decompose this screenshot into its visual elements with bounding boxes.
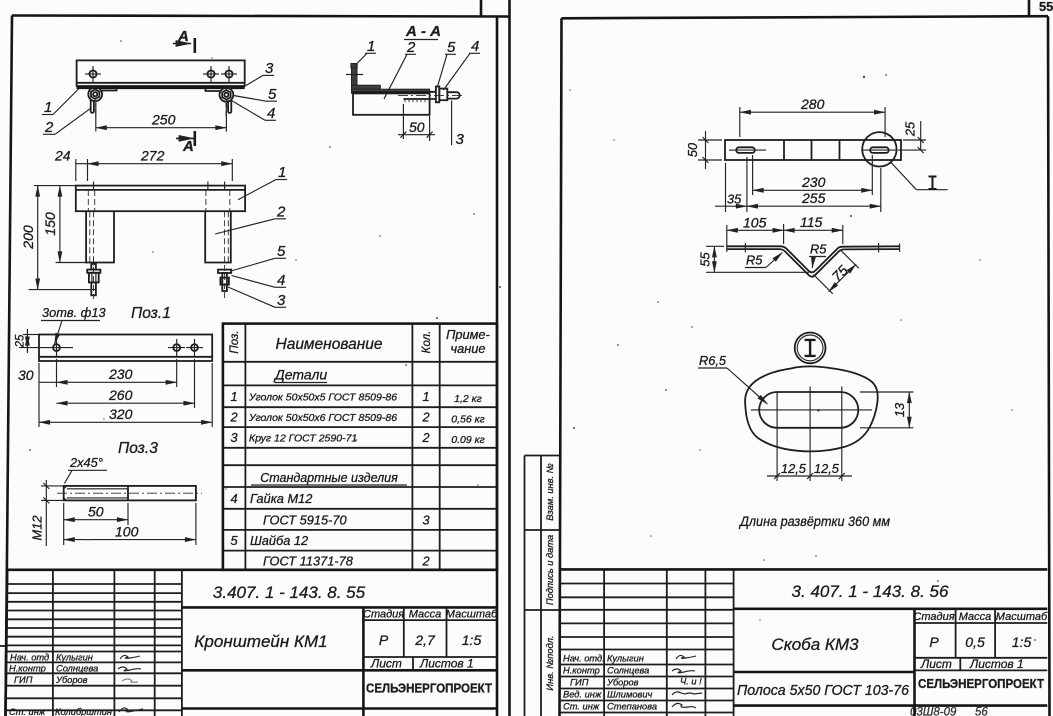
svg-text:255: 255	[801, 190, 826, 206]
svg-text:Гайка М12: Гайка М12	[250, 491, 312, 506]
dimension 105	[727, 215, 784, 245]
svg-text:150: 150	[42, 212, 58, 236]
svg-text:1:5: 1:5	[462, 632, 482, 648]
svg-text:105: 105	[743, 215, 767, 231]
poz3 chamfer note 2x45	[65, 455, 108, 483]
section A-A threaded rod	[352, 89, 436, 103]
svg-text:Колибрштин: Колибрштин	[55, 707, 112, 716]
svg-text:2: 2	[229, 410, 237, 425]
leader to detail label I	[891, 163, 948, 190]
svg-text:4: 4	[277, 272, 285, 289]
svg-text:3. 407. 1 - 143. 8. 56: 3. 407. 1 - 143. 8. 56	[792, 582, 949, 601]
section A-A nut 4	[439, 89, 447, 101]
svg-text:Поз.: Поз.	[229, 330, 241, 353]
left sheet top stamp box edge	[480, 0, 483, 16]
left selenergoproekt box	[182, 682, 497, 709]
svg-text:4: 4	[471, 38, 479, 55]
svg-text:Поз.1: Поз.1	[131, 305, 171, 322]
plan view hole right	[221, 66, 237, 82]
section A-A angle 2 web rectangle	[353, 93, 430, 114]
front view callout 4	[232, 272, 287, 289]
right sheet frame left edge	[560, 18, 562, 716]
left title block outer lines	[6, 570, 498, 716]
svg-text:2,7: 2,7	[414, 632, 436, 648]
svg-text:Скоба КМ3: Скоба КМ3	[771, 635, 859, 654]
svg-text:0.09 кг: 0.09 кг	[451, 434, 485, 446]
svg-text:Стадия: Стадия	[363, 609, 404, 621]
right list listov row	[915, 657, 1048, 671]
bent profile strip bottom line	[727, 249, 900, 277]
svg-text:ГОСТ 5915-70: ГОСТ 5915-70	[263, 513, 348, 528]
left signature row st inzh	[9, 707, 143, 716]
right title block left grid rows	[560, 584, 734, 713]
svg-text:200: 200	[20, 225, 36, 250]
profile end ticks	[727, 243, 900, 253]
parts list table grid	[223, 324, 497, 570]
detail slot outline	[759, 392, 858, 428]
dimension 230	[753, 155, 873, 195]
dimension 230	[57, 359, 177, 387]
plan view right fastener washer and nut	[206, 88, 234, 117]
svg-text:3: 3	[422, 513, 429, 528]
dimension 150	[42, 186, 86, 263]
dimension 260	[57, 359, 195, 408]
right stadia massa masshtab header	[913, 609, 1048, 658]
svg-text:1,2 кг: 1,2 кг	[454, 393, 482, 405]
front view left bolt with nut and washer	[87, 258, 100, 299]
svg-text:1:5: 1:5	[1012, 634, 1032, 650]
left signature row n kontr	[9, 664, 141, 674]
svg-text:Нач. отд: Нач. отд	[10, 653, 49, 663]
right material cell polosa	[734, 682, 1048, 706]
callout 5 plan	[234, 86, 278, 103]
right sheet frame right edge	[1048, 16, 1050, 716]
left title name cell Kronshtein KM1	[182, 607, 497, 716]
section A-A title	[404, 23, 441, 40]
section A-A callout 3 leader	[452, 101, 465, 149]
callout 4 plan	[232, 101, 277, 123]
svg-text:50: 50	[685, 142, 700, 157]
poz1 strip hole 3	[186, 339, 203, 356]
front view callout 3	[228, 287, 286, 309]
section mark A bottom	[176, 131, 195, 155]
svg-text:Масса: Масса	[409, 609, 442, 621]
svg-text:R5: R5	[746, 253, 763, 268]
svg-text:320: 320	[109, 406, 133, 422]
left signature row gip	[14, 675, 138, 685]
dimension 50	[685, 131, 722, 169]
svg-text:230: 230	[801, 174, 826, 190]
dimension 320	[39, 363, 212, 427]
svg-text:3: 3	[230, 430, 237, 445]
svg-text:250: 250	[151, 112, 176, 128]
table row 5 shaiba	[230, 533, 308, 548]
poz1 strip hole 2	[168, 339, 185, 356]
svg-text:Шайба 12: Шайба 12	[250, 533, 308, 548]
svg-text:Шлимович: Шлимович	[607, 690, 653, 700]
svg-text:Нач. отд.: Нач. отд.	[563, 654, 605, 664]
right signature row n kontr	[563, 666, 695, 676]
right name cell Skoba KM3	[734, 609, 915, 716]
svg-text:Солнцева: Солнцева	[56, 664, 98, 674]
flat bar bend lines	[784, 140, 840, 160]
plan view hole left	[85, 66, 101, 82]
svg-text:Инв. №подл.: Инв. №подл.	[545, 635, 555, 690]
section A-A dimension 50	[398, 104, 435, 141]
table row gost 11371	[263, 554, 430, 569]
svg-text:3: 3	[265, 60, 274, 77]
section A-A callout 4	[444, 38, 481, 90]
right title block top line	[560, 568, 1048, 571]
svg-text:Поз.3: Поз.3	[118, 440, 158, 457]
front view left leg	[86, 211, 114, 266]
svg-text:Уголок 50х50х5 ГОСТ 8509-86: Уголок 50х50х5 ГОСТ 8509-86	[248, 392, 397, 404]
svg-text:230: 230	[108, 366, 133, 382]
table section Standartnye izdeliya	[251, 471, 407, 485]
svg-text:ГИП: ГИП	[570, 678, 589, 688]
dimension 55	[698, 246, 810, 272]
dimension 12,5 12,5	[767, 461, 852, 479]
svg-text:М12: М12	[30, 516, 45, 541]
svg-text:А: А	[177, 28, 189, 45]
callout 2 plan	[43, 108, 91, 136]
section A-A angle 1 horizontal leg (hatched)	[352, 85, 381, 90]
section A-A callout 2	[384, 39, 416, 99]
svg-text:2: 2	[276, 204, 286, 221]
poz3 dimension M12	[30, 480, 64, 546]
section A-A callout 5	[438, 39, 457, 87]
flat bar right slot	[862, 147, 896, 153]
right signature row ved inzh	[563, 690, 702, 700]
dimension 30	[18, 359, 57, 427]
svg-text:280: 280	[800, 96, 825, 112]
svg-text:25: 25	[903, 121, 918, 137]
dimension 272	[88, 148, 233, 182]
dimension 250	[96, 103, 227, 132]
svg-text:Полоса 5х50 ГОСТ 103-76: Полоса 5х50 ГОСТ 103-76	[737, 682, 910, 699]
callout 3 plan	[246, 60, 274, 86]
svg-text:55: 55	[1039, 0, 1053, 14]
svg-text:1: 1	[44, 99, 52, 116]
svg-text:3отв. ф13: 3отв. ф13	[42, 305, 106, 320]
dimension 280	[740, 96, 885, 137]
poz3 dimension 50	[64, 503, 128, 545]
detail I title circle	[795, 333, 826, 364]
front view callout 5	[231, 243, 286, 271]
table row 1 ugolok	[230, 389, 481, 405]
svg-text:1: 1	[422, 389, 429, 404]
svg-text:2: 2	[421, 410, 429, 425]
left sheet inner right border	[496, 17, 499, 716]
radius note R6.5	[698, 353, 767, 404]
svg-text:Ст. инж: Ст. инж	[9, 707, 46, 716]
table row 4 gaika	[230, 491, 312, 506]
left sheet frame top edge	[12, 16, 510, 17]
svg-text:А: А	[182, 138, 194, 155]
front view right leg	[205, 211, 231, 266]
svg-text:Стадия: Стадия	[913, 611, 954, 623]
svg-text:25: 25	[15, 334, 27, 348]
svg-text:Длина развёртки 360 мм: Длина развёртки 360 мм	[738, 513, 890, 529]
svg-text:Кронштейн КМ1: Кронштейн КМ1	[194, 632, 327, 651]
front view top angle bar	[76, 186, 245, 212]
section mark A top	[173, 28, 195, 53]
svg-text:Лист: Лист	[920, 657, 952, 671]
svg-text:1: 1	[367, 38, 375, 55]
svg-text:50: 50	[88, 504, 104, 520]
callout 1 plan	[42, 89, 78, 116]
flat bar left slot	[729, 147, 766, 153]
radius note R5 left	[745, 253, 782, 268]
left signature row nach otd	[10, 653, 140, 663]
svg-text:30: 30	[18, 367, 34, 383]
svg-text:Кулыгин: Кулыгин	[607, 654, 644, 664]
svg-text:ГИП: ГИП	[14, 675, 33, 685]
svg-text:Подпись и дата: Подпись и дата	[545, 535, 555, 605]
svg-text:50: 50	[409, 119, 425, 135]
svg-text:Н.контр: Н.контр	[9, 664, 46, 674]
svg-text:100: 100	[115, 523, 139, 539]
dimension 75 diagonal	[814, 250, 859, 293]
poz3 dimension 100	[64, 503, 196, 545]
svg-text:Солнцева: Солнцева	[607, 666, 649, 676]
svg-text:3: 3	[277, 292, 286, 309]
dimension 200	[20, 186, 96, 290]
svg-text:СЕЛЬЭНЕРГОПРОЕКТ: СЕЛЬЭНЕРГОПРОЕКТ	[366, 682, 492, 696]
svg-text:Масса: Масса	[959, 611, 992, 623]
svg-text:2: 2	[421, 554, 429, 569]
svg-text:5: 5	[447, 39, 456, 56]
section A-A rod end	[398, 92, 464, 98]
svg-text:Степанова: Степанова	[607, 702, 657, 712]
left title block column lines	[53, 570, 182, 716]
svg-text:56: 56	[975, 707, 988, 716]
fold mark tick	[0, 645, 6, 647]
section A-A callout 1	[355, 38, 377, 66]
detail slot centerlines	[751, 387, 872, 482]
poz1 strip outline	[39, 335, 212, 362]
dimension 24	[54, 148, 88, 182]
svg-text:5: 5	[230, 533, 238, 548]
svg-text:3.407. 1 - 143. 8. 55: 3.407. 1 - 143. 8. 55	[213, 583, 366, 602]
svg-text:Уголок 50х50х6 ГОСТ 8509-86: Уголок 50х50х6 ГОСТ 8509-86	[248, 412, 397, 424]
table row gost 5915	[263, 513, 430, 528]
table row 3 krug	[230, 430, 484, 446]
bent profile strip top line	[727, 246, 900, 272]
svg-text:0,56 кг: 0,56 кг	[451, 414, 485, 426]
dimension 115	[784, 214, 843, 244]
svg-text:55: 55	[698, 252, 713, 267]
front view right bolt with nut and washer	[218, 265, 231, 299]
svg-text:Листов 1: Листов 1	[969, 657, 1024, 671]
plan view left fastener washer and nut	[88, 87, 116, 117]
svg-text:12,5: 12,5	[814, 461, 840, 476]
svg-text:Стандартные изделия: Стандартные изделия	[260, 471, 398, 485]
svg-text:3: 3	[456, 131, 465, 148]
front view callout 1	[238, 164, 287, 200]
right designation cell	[734, 582, 1048, 609]
svg-text:1: 1	[278, 164, 286, 181]
svg-text:2: 2	[421, 430, 429, 445]
dimension 25 vertical	[15, 329, 40, 353]
left stadia values row	[379, 632, 482, 648]
right signature row nach otd	[563, 654, 696, 664]
svg-text:Р: Р	[929, 634, 939, 650]
svg-text:Наименование: Наименование	[276, 336, 383, 353]
section A-A angle 1 vertical leg (hatched)	[346, 64, 363, 90]
svg-text:272: 272	[140, 148, 165, 164]
table section Detali	[273, 367, 328, 383]
left stadia massa masshtab header	[363, 607, 498, 657]
svg-text:Н.контр: Н.контр	[563, 666, 600, 676]
svg-text:260: 260	[108, 387, 133, 403]
table row 2 ugolok	[229, 410, 484, 426]
svg-text:R6,5: R6,5	[699, 353, 727, 368]
svg-text:115: 115	[800, 214, 823, 230]
poz3 rod outline	[57, 486, 202, 501]
svg-text:35: 35	[727, 192, 742, 207]
dimension 13	[860, 392, 913, 428]
section A-A angle 2 flange strip (hatched)	[352, 89, 430, 93]
svg-text:12,5: 12,5	[781, 461, 807, 476]
svg-text:ГОСТ 11371-78: ГОСТ 11371-78	[263, 554, 354, 569]
svg-text:4: 4	[230, 491, 237, 506]
left list listov row	[370, 657, 474, 671]
svg-text:Детали: Детали	[273, 367, 328, 383]
right title block column lines	[604, 569, 734, 716]
scan speckle dots extra	[87, 57, 1013, 621]
svg-text:5: 5	[268, 86, 277, 103]
front view hidden hole lines in bar	[88, 190, 230, 211]
svg-text:5: 5	[277, 243, 286, 260]
svg-text:Ст. инж: Ст. инж	[563, 702, 600, 712]
svg-text:Уборов: Уборов	[55, 675, 88, 685]
right signature row gip	[570, 677, 702, 688]
svg-text:0,5: 0,5	[965, 634, 985, 650]
svg-text:чание: чание	[450, 341, 485, 356]
right sheet frame top edge	[562, 16, 1049, 18]
left title block designation cell	[182, 583, 497, 607]
front view callout 2	[215, 204, 286, 235]
margin strip borders	[525, 456, 560, 716]
plan view hole middle	[203, 66, 219, 82]
svg-text:2: 2	[406, 39, 416, 56]
svg-text:Круг 12 ГОСТ 2590-71: Круг 12 ГОСТ 2590-71	[249, 433, 357, 445]
svg-text:Взам. инв. №: Взам. инв. №	[545, 463, 555, 521]
svg-text:03Ш8-09: 03Ш8-09	[910, 707, 957, 716]
poz1 strip hole 1	[19, 339, 73, 356]
left title block small grid rows	[6, 584, 182, 710]
left sheet frame left edge	[6, 16, 13, 716]
detail mark circle on right slot	[862, 132, 896, 166]
right signature row st inzh	[563, 702, 696, 712]
svg-text:Листов 1: Листов 1	[419, 657, 474, 671]
svg-text:Уборов: Уборов	[606, 678, 639, 688]
svg-text:24: 24	[54, 148, 71, 164]
table header Primechanie	[446, 327, 490, 356]
svg-text:2: 2	[44, 119, 54, 136]
dimension 25	[898, 121, 926, 153]
radius note R5 right	[809, 242, 827, 269]
svg-text:Вед. инж: Вед. инж	[563, 690, 602, 700]
flat bar outline	[725, 140, 901, 160]
svg-text:А - А: А - А	[405, 23, 441, 40]
dimension 35 and 255	[715, 157, 881, 212]
svg-text:Р: Р	[379, 632, 389, 648]
svg-text:СЕЛЬЭНЕРГОПРОЕКТ: СЕЛЬЭНЕРГОПРОЕКТ	[918, 677, 1044, 691]
svg-text:Кулыгин: Кулыгин	[56, 653, 93, 663]
poz1 strip: 3 holes note	[41, 305, 106, 344]
svg-text:Кол.: Кол.	[421, 331, 433, 354]
svg-text:4: 4	[267, 105, 275, 122]
svg-text:2х45°: 2х45°	[69, 455, 103, 470]
svg-text:13: 13	[892, 403, 907, 417]
page number box	[1029, 0, 1053, 16]
svg-text:Масштаб: Масштаб	[446, 609, 498, 621]
svg-text:Ч. и !: Ч. и !	[680, 677, 702, 687]
svg-text:R5: R5	[810, 242, 827, 257]
right stadia values	[929, 634, 1031, 650]
svg-text:1: 1	[230, 389, 237, 404]
front view centermark ticks on bar top	[94, 182, 225, 190]
detail blob freeform outline	[745, 366, 878, 451]
svg-text:Приме-: Приме-	[446, 327, 490, 342]
svg-text:Лист: Лист	[370, 657, 402, 671]
section A-A washer 5	[436, 87, 439, 103]
svg-text:Масштаб: Масштаб	[996, 611, 1048, 623]
plan view: angle bar outline	[77, 60, 245, 87]
left sheet outer right edge	[508, 0, 511, 716]
